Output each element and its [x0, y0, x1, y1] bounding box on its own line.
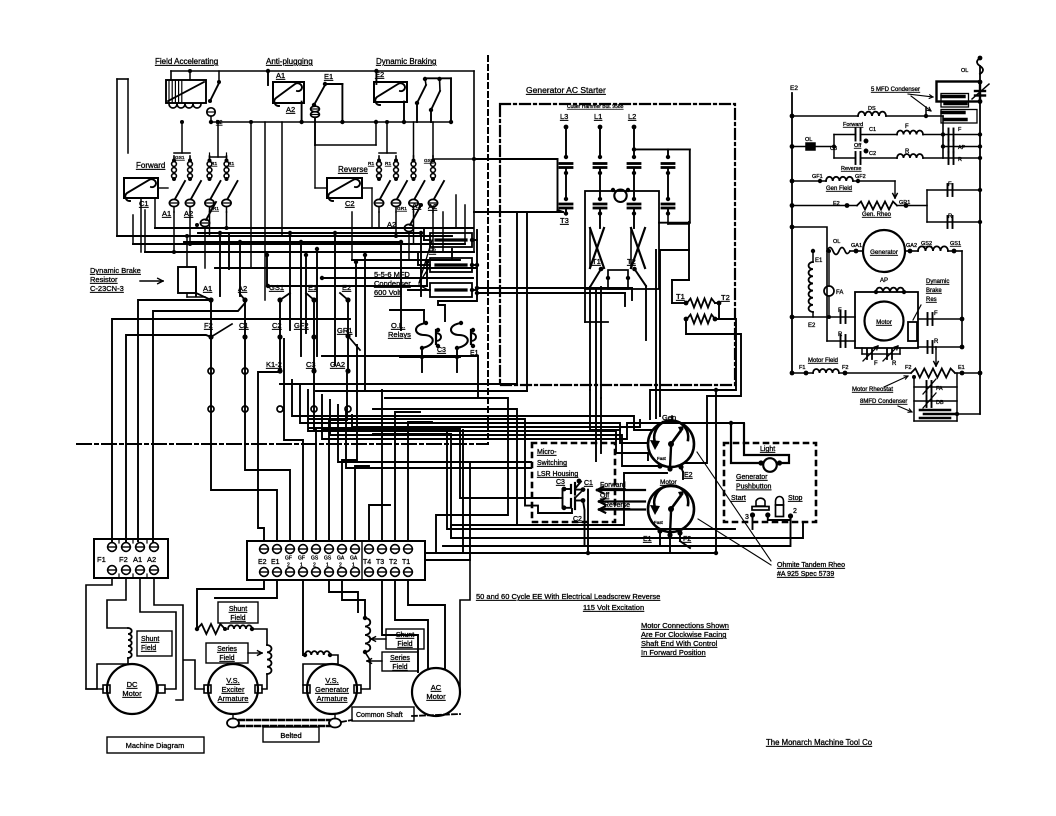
- wire contact drops: [173, 212, 175, 252]
- svg-text:GS1: GS1: [269, 283, 284, 292]
- svg-text:Res: Res: [926, 297, 937, 303]
- svg-text:GS: GS: [324, 556, 332, 562]
- svg-text:In Forward Position: In Forward Position: [641, 648, 706, 657]
- svg-text:F2: F2: [429, 249, 437, 255]
- svg-text:E1: E1: [308, 283, 317, 292]
- motor circle: [865, 302, 904, 341]
- pushbutton wires: [752, 515, 754, 529]
- svg-text:T1: T1: [676, 292, 685, 301]
- svg-text:C2: C2: [869, 151, 876, 157]
- wire gen line: [792, 227, 827, 251]
- svg-text:A2: A2: [286, 105, 295, 114]
- capacitor top right bus: [975, 90, 985, 92]
- svg-text:Gen Field: Gen Field: [826, 186, 852, 192]
- svg-text:Motor: Motor: [876, 319, 892, 326]
- svg-text:Ohmite Tandem Rheo: Ohmite Tandem Rheo: [777, 562, 845, 569]
- overload heater T1: [590, 228, 604, 268]
- gen series field label: [382, 652, 418, 671]
- wire bank risers: [174, 152, 190, 154]
- exciter shunt field: [218, 602, 258, 623]
- gen shunt field label: [386, 629, 424, 649]
- svg-text:GF2: GF2: [855, 174, 866, 180]
- svg-text:Generator: Generator: [870, 249, 898, 256]
- svg-text:Machine Diagram: Machine Diagram: [126, 741, 185, 750]
- svg-text:Generator: Generator: [315, 685, 349, 694]
- svg-text:F: F: [934, 311, 938, 317]
- wire right bus: [979, 66, 981, 414]
- svg-text:GF: GF: [285, 556, 292, 562]
- svg-text:Dynamic: Dynamic: [926, 279, 949, 285]
- svg-text:Armature: Armature: [218, 694, 249, 703]
- svg-text:A1: A1: [133, 555, 142, 564]
- svg-text:R: R: [934, 339, 939, 345]
- overload heater T2: [631, 228, 645, 268]
- svg-text:T3: T3: [560, 216, 569, 225]
- svg-text:F: F: [874, 361, 878, 367]
- common shaft label: [352, 707, 414, 721]
- svg-text:F: F: [905, 124, 909, 130]
- panel boundary dashed line: [487, 56, 489, 444]
- svg-text:R1: R1: [385, 161, 391, 167]
- resistor R dynamic brake: [178, 267, 196, 293]
- wire drops from coils: [267, 71, 269, 85]
- wire crossing verticals: [250, 122, 252, 268]
- start button: [756, 498, 765, 506]
- wire hooks right of TB: [425, 430, 463, 553]
- svg-text:Forward: Forward: [600, 482, 626, 489]
- svg-text:A2: A2: [184, 209, 193, 218]
- svg-text:LSR Housing: LSR Housing: [537, 471, 578, 478]
- svg-text:Generator: Generator: [736, 474, 768, 481]
- svg-text:F: F: [838, 308, 842, 314]
- svg-text:R: R: [838, 332, 843, 338]
- wire rail y122: [211, 121, 452, 123]
- svg-text:Motor: Motor: [426, 692, 446, 701]
- svg-text:F2: F2: [119, 555, 128, 564]
- svg-text:F2: F2: [905, 365, 911, 371]
- svg-text:C2: C2: [573, 516, 582, 523]
- wire line drops: [565, 127, 567, 157]
- motor box: [855, 292, 918, 348]
- starter contacts upper row: [564, 155, 568, 159]
- wire T blade outputs left: [477, 287, 632, 289]
- svg-text:C-23CN-3: C-23CN-3: [90, 284, 124, 293]
- svg-text:C3: C3: [437, 347, 446, 354]
- svg-text:Belted: Belted: [280, 731, 301, 740]
- runs into LSR housing: [385, 398, 508, 553]
- svg-text:Reverse: Reverse: [604, 502, 630, 509]
- svg-text:Cutler Hammer Bul. 9588: Cutler Hammer Bul. 9588: [567, 104, 624, 110]
- svg-text:Switching: Switching: [537, 460, 567, 467]
- contactor frame box: [585, 191, 659, 289]
- svg-text:T2: T2: [389, 559, 397, 566]
- wire tangle extra horizontals: [198, 232, 421, 234]
- svg-text:1: 1: [352, 563, 355, 569]
- contact R2: [210, 83, 219, 101]
- pulleys and belt: [227, 719, 239, 728]
- svg-text:Field Accelerating: Field Accelerating: [155, 57, 218, 66]
- wire runs left section to terminal blocks: [138, 300, 211, 541]
- svg-text:V.S.: V.S.: [325, 676, 338, 685]
- svg-text:2: 2: [287, 563, 290, 569]
- svg-text:A2: A2: [147, 555, 156, 564]
- interlock capacitors F AP R: [943, 134, 980, 136]
- svg-text:F1: F1: [97, 555, 106, 564]
- FA circle: [824, 286, 834, 296]
- svg-text:Stop: Stop: [788, 495, 803, 502]
- stop button: [776, 497, 784, 506]
- svg-text:T4: T4: [363, 559, 371, 566]
- svg-text:OL: OL: [805, 137, 812, 143]
- svg-text:Resistor: Resistor: [90, 275, 118, 284]
- contact A2 extra: [200, 219, 209, 226]
- svg-text:Relays: Relays: [388, 330, 411, 339]
- wire K1-2 to E2: [258, 372, 280, 541]
- wires AC motor: [382, 580, 418, 672]
- svg-text:T1: T1: [592, 257, 601, 266]
- svg-text:Forward: Forward: [843, 122, 863, 128]
- svg-text:DC: DC: [127, 680, 138, 689]
- svg-text:Field: Field: [397, 641, 412, 648]
- wire switch loop: [562, 489, 564, 508]
- wire left bus E2: [791, 93, 793, 373]
- svg-text:F2: F2: [842, 365, 848, 371]
- LSR housing box: [532, 443, 615, 522]
- svg-text:Field: Field: [392, 664, 407, 671]
- svg-text:Brake: Brake: [926, 288, 942, 294]
- svg-text:Off: Off: [854, 143, 862, 149]
- svg-text:A1: A1: [203, 284, 212, 293]
- svg-text:E2: E2: [808, 323, 816, 329]
- svg-text:L3: L3: [560, 112, 568, 121]
- svg-text:C1: C1: [869, 127, 876, 133]
- condenser 8MFD bracket: [913, 377, 915, 421]
- svg-text:Shaft End With Control: Shaft End With Control: [641, 639, 718, 648]
- wire reverse bank risers: [379, 152, 396, 154]
- svg-text:GA2: GA2: [906, 243, 917, 249]
- gen rheo capacitors F R: [926, 190, 928, 222]
- svg-text:Field: Field: [141, 645, 156, 652]
- svg-text:Motor Rheostat: Motor Rheostat: [852, 387, 893, 393]
- wire motor F line: [792, 316, 855, 318]
- starter contacts lower row: [560, 203, 572, 206]
- svg-text:R: R: [958, 157, 962, 163]
- svg-text:C1: C1: [584, 480, 593, 487]
- svg-text:Fast: Fast: [654, 520, 664, 525]
- svg-text:A1: A1: [276, 71, 285, 80]
- contact pair dynamic braking: [417, 85, 426, 103]
- wires exciter: [197, 580, 264, 629]
- terminal block left: [94, 539, 168, 578]
- svg-text:T2: T2: [721, 293, 730, 302]
- svg-text:Motor Field: Motor Field: [808, 358, 838, 364]
- inner bottom box: [608, 270, 628, 289]
- svg-text:2: 2: [313, 563, 316, 569]
- wire inner columns: [599, 214, 601, 228]
- pushbutton station box: [724, 443, 816, 522]
- svg-text:A2: A2: [428, 202, 437, 211]
- svg-text:R: R: [948, 214, 953, 220]
- wire left drop: [116, 79, 118, 236]
- belted label: [263, 727, 319, 742]
- runs to pushbutton station: [447, 428, 735, 529]
- svg-text:GR1: GR1: [337, 326, 352, 335]
- svg-text:Common Shaft: Common Shaft: [356, 712, 403, 719]
- rail extensions: [456, 227, 473, 229]
- svg-text:E2: E2: [684, 472, 693, 479]
- starter outputs down: [590, 390, 620, 430]
- svg-text:2: 2: [793, 508, 797, 515]
- generator circle U-GEN: [863, 230, 905, 272]
- svg-text:FA: FA: [936, 386, 943, 392]
- wire top rail: [171, 70, 474, 72]
- svg-text:Exciter: Exciter: [222, 685, 245, 694]
- svg-text:5 MFD Condenser: 5 MFD Condenser: [871, 87, 920, 93]
- svg-text:T1: T1: [402, 559, 410, 566]
- svg-text:C2: C2: [345, 199, 355, 208]
- svg-text:T2: T2: [627, 257, 636, 266]
- mounting holes: [208, 368, 214, 374]
- svg-text:Series: Series: [390, 655, 410, 662]
- svg-text:C1: C1: [239, 321, 249, 330]
- terminal block right: [247, 541, 425, 580]
- wire T1 T2 resistor feeds: [688, 222, 690, 280]
- wire terminal column links: [210, 300, 212, 337]
- wire T resistor drops: [684, 319, 741, 463]
- svg-text:Light: Light: [760, 446, 775, 453]
- svg-text:1: 1: [326, 563, 329, 569]
- svg-text:3: 3: [745, 514, 749, 521]
- svg-text:Fast: Fast: [657, 456, 667, 461]
- svg-text:L1: L1: [594, 112, 602, 121]
- svg-text:E1: E1: [958, 365, 965, 371]
- machine diagram label: [107, 737, 204, 753]
- DC motor: [107, 664, 157, 714]
- svg-text:Field: Field: [219, 655, 234, 662]
- svg-text:Dynamic Brake: Dynamic Brake: [90, 266, 141, 275]
- svg-text:Anti-plugging: Anti-plugging: [266, 57, 313, 66]
- generator series field coil: [305, 651, 330, 655]
- svg-text:FA: FA: [836, 290, 843, 296]
- svg-text:Gen. Rheo: Gen. Rheo: [862, 212, 892, 218]
- wires DC motor: [86, 578, 112, 689]
- tandem terminals wires: [659, 531, 661, 546]
- svg-text:Field: Field: [230, 615, 245, 622]
- svg-text:1: 1: [300, 563, 303, 569]
- svg-text:A1: A1: [162, 209, 171, 218]
- svg-text:V.S.: V.S.: [226, 676, 239, 685]
- 8MFD plates: [920, 409, 950, 412]
- exciter series field: [206, 643, 248, 663]
- svg-text:Generator AC Starter: Generator AC Starter: [526, 85, 606, 95]
- wire coil box connections: [140, 198, 142, 252]
- svg-text:E1: E1: [271, 559, 280, 566]
- svg-text:2: 2: [339, 563, 342, 569]
- wire light leads: [731, 424, 761, 463]
- wire 4th column feed: [634, 148, 690, 150]
- svg-text:Series: Series: [217, 646, 237, 653]
- wire crossbar rails: [155, 227, 456, 229]
- long runs to rheostat and pushbutton area: [292, 380, 652, 430]
- svg-text:AP: AP: [958, 145, 966, 151]
- terminal diagonal stubs: [196, 293, 211, 300]
- svg-text:Shunt: Shunt: [229, 606, 247, 613]
- junction dots tangle: [218, 231, 222, 235]
- svg-text:GR1: GR1: [397, 206, 407, 212]
- wire T3 to left section: [474, 211, 563, 213]
- svg-text:Micro-: Micro-: [537, 449, 557, 456]
- svg-text:Reverse: Reverse: [338, 165, 368, 174]
- svg-text:Motor Connections Shown: Motor Connections Shown: [641, 621, 729, 630]
- svg-text:OL: OL: [961, 68, 968, 74]
- generator shunt field coil: [365, 618, 370, 652]
- machine boundary dash-dot line: [77, 443, 488, 445]
- svg-text:AC: AC: [431, 683, 442, 692]
- svg-text:OL: OL: [833, 239, 840, 245]
- svg-text:8MFD Condenser: 8MFD Condenser: [860, 399, 907, 405]
- svg-text:E1: E1: [324, 72, 333, 81]
- svg-text:AP: AP: [880, 278, 888, 284]
- svg-text:DB: DB: [936, 400, 944, 406]
- svg-text:E2: E2: [790, 85, 798, 92]
- svg-text:E2: E2: [342, 283, 351, 292]
- wire starter frame lower left: [584, 289, 586, 322]
- svg-text:F1: F1: [799, 365, 805, 371]
- svg-text:Are For Clockwise Facing: Are For Clockwise Facing: [641, 630, 726, 639]
- svg-text:GA2: GA2: [330, 360, 345, 369]
- svg-text:R1: R1: [368, 161, 374, 167]
- svg-text:E1: E1: [815, 258, 823, 264]
- VS exciter armature: [208, 664, 258, 714]
- wire condenser links: [472, 239, 477, 241]
- wires generator armature: [303, 580, 305, 655]
- svg-text:GS: GS: [311, 556, 319, 562]
- svg-text:600 Volt: 600 Volt: [374, 288, 402, 297]
- svg-text:GA: GA: [337, 556, 345, 562]
- svg-text:C3: C3: [556, 479, 565, 486]
- coil circle: [614, 190, 626, 202]
- svg-text:GA1: GA1: [851, 243, 862, 249]
- svg-text:Start: Start: [731, 495, 746, 502]
- wire tangle extra verticals: [195, 269, 197, 296]
- svg-text:Motor: Motor: [122, 689, 142, 698]
- blade contacts: [590, 269, 601, 287]
- wires row2 to terminal block: [211, 340, 277, 541]
- motor bottom variable caps: [861, 348, 863, 354]
- wire motor right caps: [918, 318, 962, 320]
- svg-text:Shunt: Shunt: [141, 636, 159, 643]
- svg-text:F: F: [948, 182, 952, 188]
- wire OL connections: [423, 310, 425, 323]
- svg-text:Armature: Armature: [317, 694, 348, 703]
- wire starter outputs: [589, 287, 591, 390]
- wire motor R line: [826, 251, 828, 341]
- svg-text:Forward: Forward: [136, 161, 165, 170]
- svg-text:E2: E2: [258, 559, 267, 566]
- relay coil FA (field accelerating): [166, 80, 206, 103]
- condenser pointer fan: [419, 240, 432, 283]
- svg-text:C3: C3: [830, 146, 837, 152]
- wires T columns: [369, 505, 390, 541]
- svg-text:Reverse: Reverse: [841, 166, 861, 172]
- svg-text:GA: GA: [350, 556, 358, 562]
- ohmite pointer lines: [697, 452, 771, 561]
- svg-text:L2: L2: [628, 112, 636, 121]
- svg-text:GS1: GS1: [950, 241, 961, 247]
- runs bottom band: [586, 551, 590, 555]
- zone B horizontals: [322, 356, 478, 398]
- svg-text:Dynamic Braking: Dynamic Braking: [376, 57, 436, 66]
- svg-text:115 Volt Excitation: 115 Volt Excitation: [583, 603, 644, 612]
- svg-text:T3: T3: [376, 559, 384, 566]
- svg-text:#A 925 Spec 5739: #A 925 Spec 5739: [777, 571, 834, 578]
- svg-text:O.L.: O.L.: [391, 321, 405, 330]
- gen rheostat top feed: [671, 416, 673, 423]
- VS generator armature: [307, 664, 357, 714]
- wire: [218, 71, 220, 82]
- svg-text:Pushbutton: Pushbutton: [736, 484, 772, 491]
- svg-text:The Monarch Machine Tool Co: The Monarch Machine Tool Co: [766, 738, 873, 747]
- AC motor: [412, 668, 460, 716]
- DC shunt field coil: [128, 628, 132, 658]
- svg-text:R: R: [892, 361, 897, 367]
- svg-text:GS1: GS1: [175, 155, 185, 161]
- wire L3 bypass: [474, 158, 558, 160]
- svg-text:GF: GF: [298, 556, 305, 562]
- rheostat Motor: [648, 486, 694, 532]
- svg-text:50 and 60 Cycle EE With Electr: 50 and 60 Cycle EE With Electrical Leads…: [476, 592, 660, 601]
